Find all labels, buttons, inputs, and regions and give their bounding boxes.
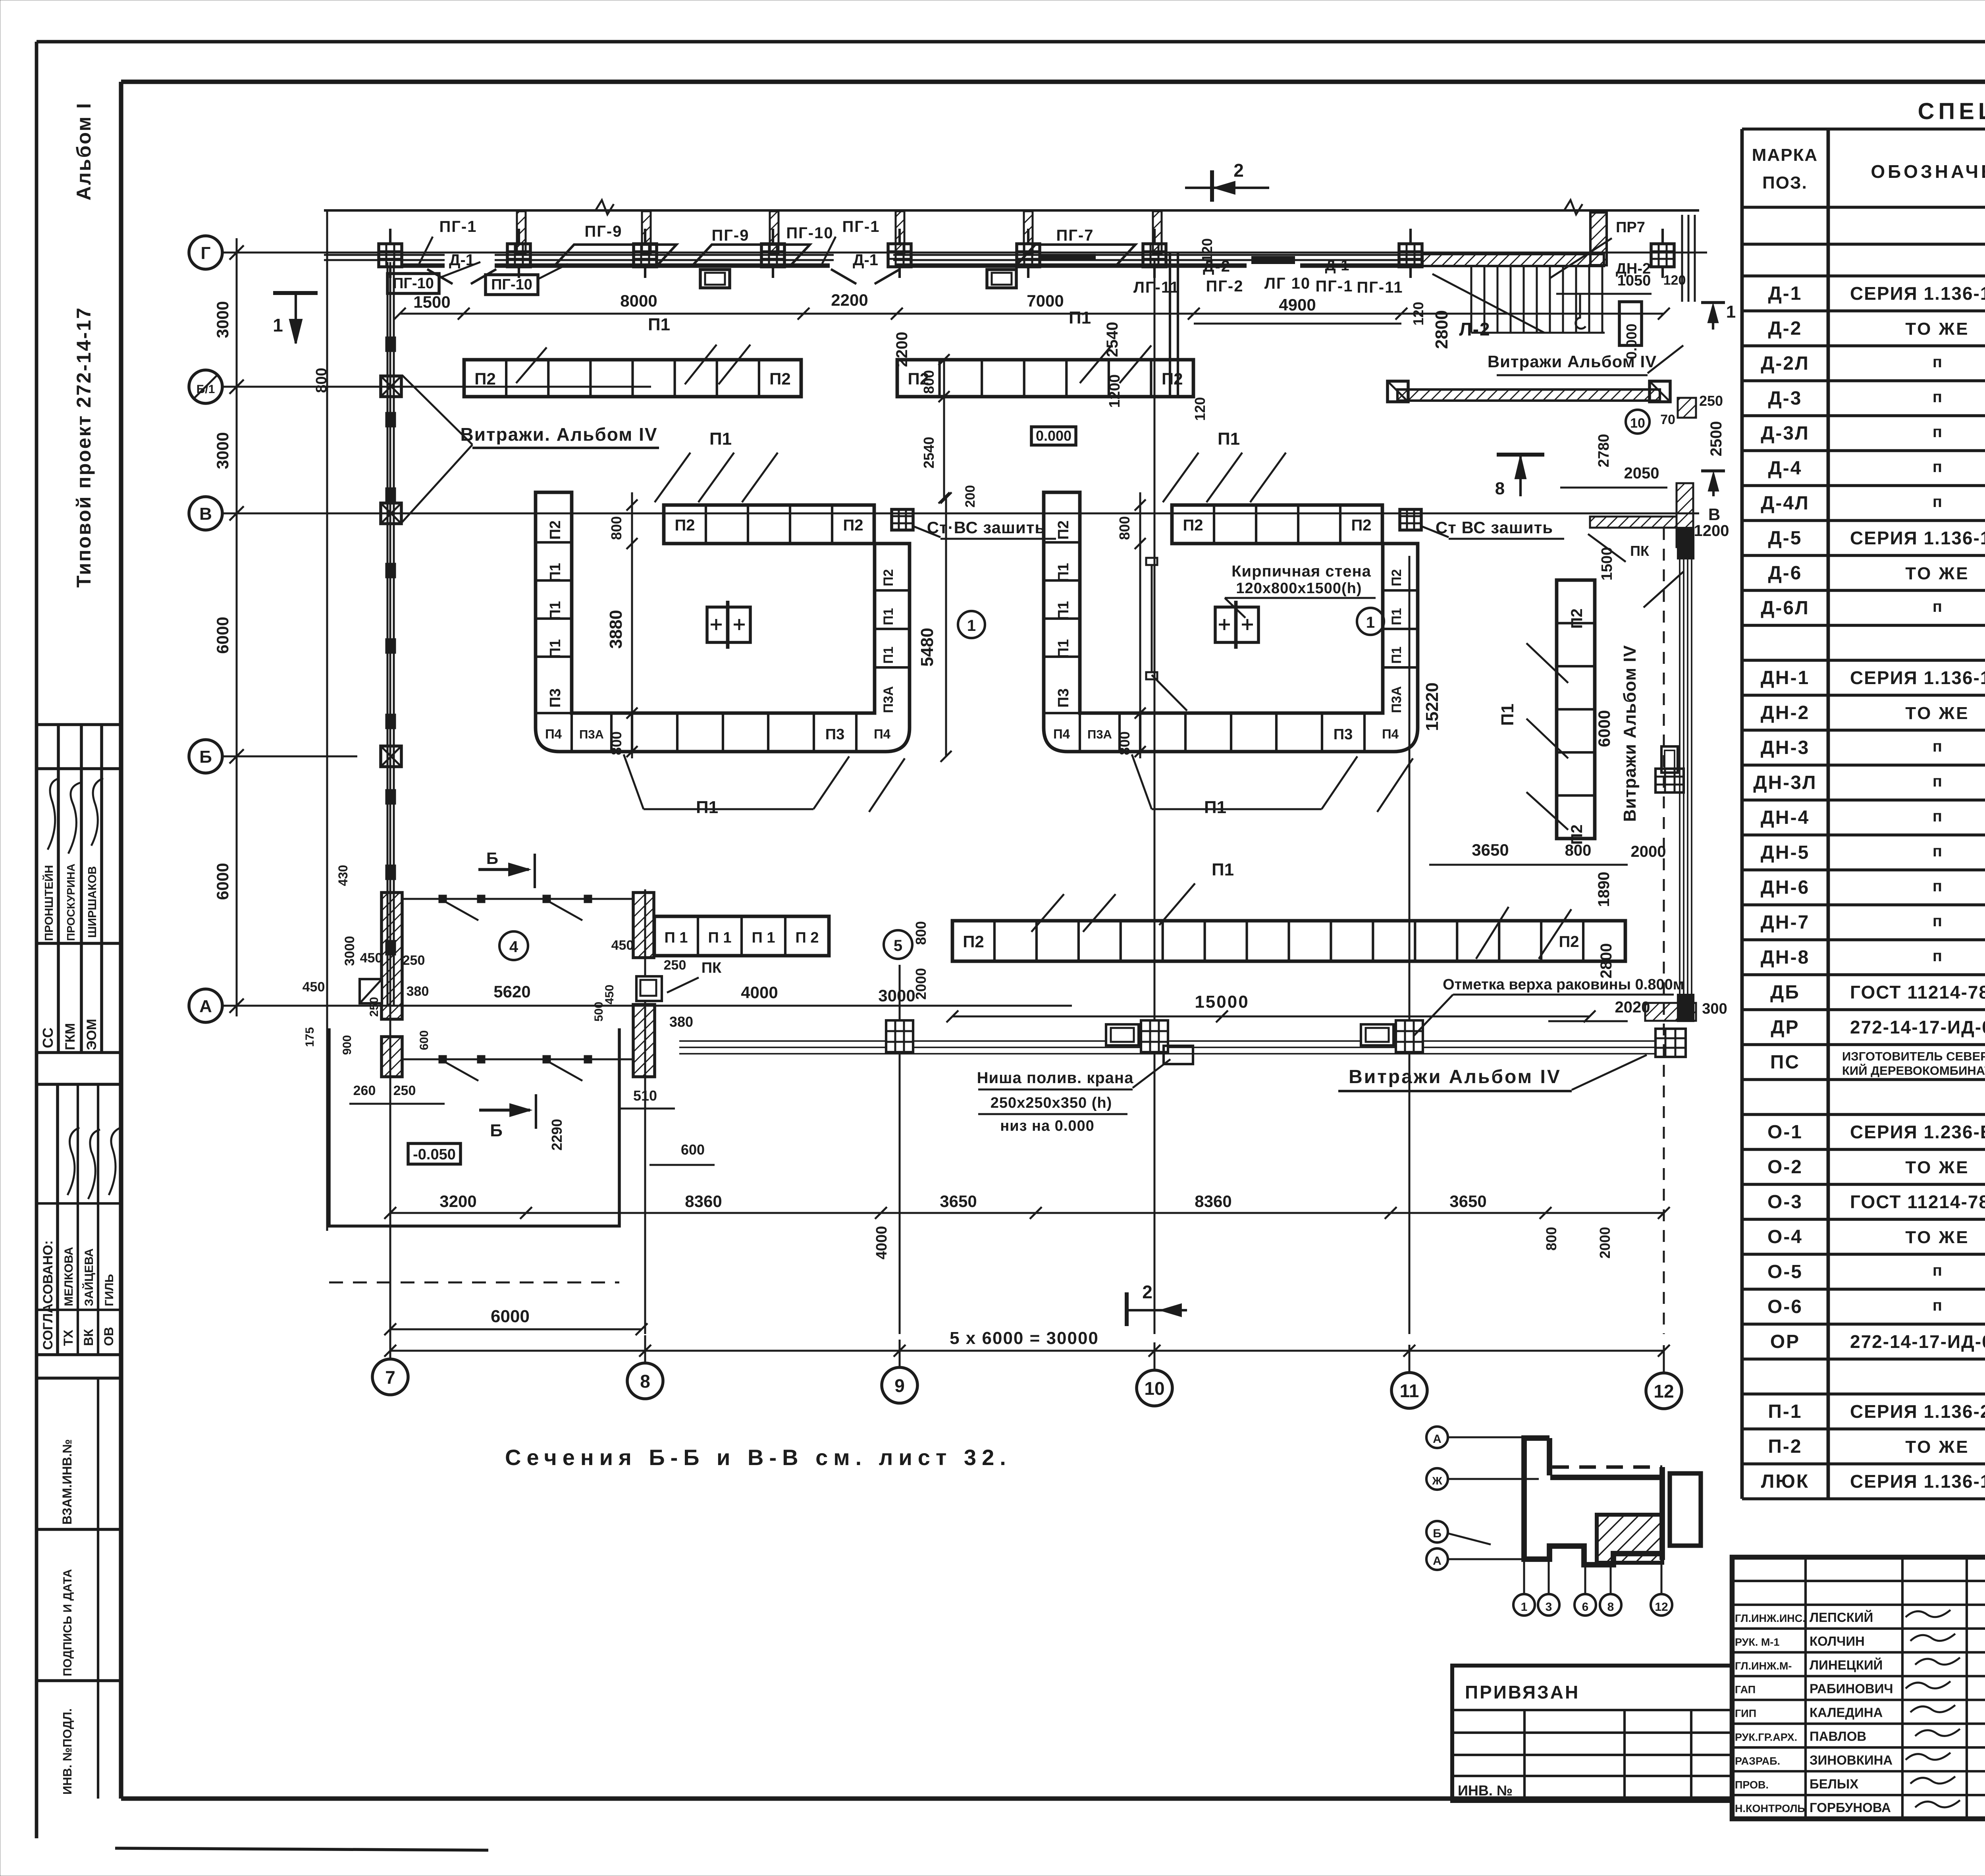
svg-text:Д-5: Д-5 xyxy=(1768,528,1802,549)
svg-text:ТО ЖЕ: ТО ЖЕ xyxy=(1905,564,1969,583)
svg-text:3000: 3000 xyxy=(878,986,915,1005)
svg-text:Отметка верха раковины 0.800м: Отметка верха раковины 0.800м xyxy=(1443,976,1684,993)
counter row 2 top-mid xyxy=(897,360,1193,397)
svg-text:п: п xyxy=(1933,1262,1942,1279)
dim line 800/3880/800 of U-counter 2 (right) xyxy=(1139,492,1141,758)
svg-text:КАЛЕДИНА: КАЛЕДИНА xyxy=(1810,1705,1883,1720)
left stamp table CC/GKM/EOM xyxy=(37,725,121,1053)
svg-text:3000: 3000 xyxy=(342,936,357,966)
spec table rows xyxy=(1742,129,1985,1499)
svg-text:СЕРИЯ 1.136-11.4.1: СЕРИЯ 1.136-11.4.1 xyxy=(1850,667,1985,688)
svg-text:260: 260 xyxy=(353,1083,376,1098)
window symbol 1 xyxy=(700,270,730,288)
svg-text:п: п xyxy=(1933,493,1942,511)
svg-text:Ж: Ж xyxy=(1432,1475,1442,1487)
vitrage window mid xyxy=(1661,746,1678,773)
svg-text:РУК. М-1: РУК. М-1 xyxy=(1735,1636,1779,1648)
svg-text:П1: П1 xyxy=(1218,429,1240,449)
svg-text:ГОРБУНОВА: ГОРБУНОВА xyxy=(1810,1800,1891,1815)
column on axis G x=1947 xyxy=(761,244,784,267)
mid dimension line xyxy=(390,1212,1664,1214)
svg-text:Д-2Л: Д-2Л xyxy=(1761,353,1810,374)
section marker 2 bottom xyxy=(1125,1292,1129,1326)
svg-text:2050: 2050 xyxy=(1624,465,1659,482)
column on axis G x=3553 xyxy=(1399,244,1422,267)
canopy hatched mullions xyxy=(517,211,526,253)
svg-text:ПГ-9: ПГ-9 xyxy=(585,223,622,240)
svg-text:Сечения Б-Б и В-В см. ли: Сечения Б-Б и В-В см. лист 32. xyxy=(505,1445,1012,1470)
svg-text:П1: П1 xyxy=(1389,608,1404,625)
key plan small scheme xyxy=(1426,1427,1701,1616)
column on bottom vitrage x=3550 xyxy=(1396,1020,1423,1052)
svg-text:О-1: О-1 xyxy=(1767,1122,1803,1143)
column on axis G x=2266 xyxy=(888,244,911,267)
label PG-1 leader a xyxy=(419,237,433,264)
svg-text:РУК.ГР.АРХ.: РУК.ГР.АРХ. xyxy=(1735,1731,1797,1743)
column on axis G x=983 xyxy=(379,244,402,267)
svg-text:Н.КОНТРОЛЬ: Н.КОНТРОЛЬ xyxy=(1735,1803,1805,1814)
svg-text:П4: П4 xyxy=(1382,727,1399,741)
svg-text:П2: П2 xyxy=(1055,521,1072,540)
svg-text:0.000: 0.000 xyxy=(1036,428,1072,444)
svg-text:О-6: О-6 xyxy=(1767,1296,1803,1317)
svg-text:9: 9 xyxy=(894,1375,905,1396)
grid column mid right xyxy=(1655,769,1684,792)
svg-text:ВК: ВК xyxy=(81,1329,96,1346)
column on axis G x=2590 xyxy=(1017,244,1040,267)
svg-text:СЕРИЯ 1.136-11.42: СЕРИЯ 1.136-11.42 xyxy=(1850,1471,1985,1492)
svg-text:ПГ-10: ПГ-10 xyxy=(786,224,833,242)
svg-text:Б: Б xyxy=(486,849,498,868)
top dimension line xyxy=(400,313,1664,315)
parallelogram symbol PG-9 b xyxy=(693,245,810,265)
center table of U-counter 2 (right) xyxy=(1215,607,1258,642)
svg-text:П 1: П 1 xyxy=(664,929,688,946)
svg-text:2: 2 xyxy=(1233,160,1244,181)
axis line А xyxy=(222,1005,1072,1007)
circled 1 right hall xyxy=(1357,608,1384,635)
left stamp: rotated sheet title xyxy=(73,102,95,588)
U-counter 1 (left) right col cells xyxy=(875,589,910,592)
axis circle Б xyxy=(189,740,222,773)
svg-text:5: 5 xyxy=(894,937,902,954)
axis circle 10 xyxy=(1137,1370,1172,1406)
svg-text:низ на 0.000: низ на 0.000 xyxy=(1000,1118,1095,1134)
svg-text:2500: 2500 xyxy=(1707,421,1725,457)
svg-text:6000: 6000 xyxy=(491,1307,530,1326)
svg-text:А: А xyxy=(199,997,212,1016)
svg-text:МАРКА: МАРКА xyxy=(1752,145,1818,165)
stair run diagonal xyxy=(1432,274,1544,333)
svg-text:П1: П1 xyxy=(1389,646,1404,663)
svg-text:175: 175 xyxy=(303,1027,316,1047)
svg-text:п: п xyxy=(1933,458,1942,476)
svg-text:СЕРИЯ 1.136-10: СЕРИЯ 1.136-10 xyxy=(1850,283,1985,304)
svg-text:СЕРИЯ 1.136-2: СЕРИЯ 1.136-2 xyxy=(1850,1401,1985,1422)
svg-text:п: п xyxy=(1933,843,1942,860)
boxed label PG-10 b xyxy=(486,275,538,295)
heavy door leaf mid xyxy=(1040,254,1096,261)
svg-text:4: 4 xyxy=(509,938,518,956)
svg-text:ДБ: ДБ xyxy=(1770,982,1800,1003)
svg-text:Б: Б xyxy=(490,1121,503,1140)
svg-text:П1: П1 xyxy=(1069,308,1091,328)
svg-text:п: п xyxy=(1933,1297,1942,1314)
U-counter 1 (left) top row xyxy=(664,505,874,544)
svg-text:ДР: ДР xyxy=(1771,1017,1799,1038)
section marker V xyxy=(1701,469,1725,472)
axis circle 9 xyxy=(882,1367,917,1403)
svg-text:П2: П2 xyxy=(1568,609,1586,629)
svg-text:ДН-7: ДН-7 xyxy=(1761,912,1810,933)
svg-text:Ниша полив. крана: Ниша полив. крана xyxy=(977,1069,1134,1087)
svg-text:Витражи Альбом IV: Витражи Альбом IV xyxy=(1620,645,1640,822)
counter row 1 top-left xyxy=(464,360,801,397)
label PG-1 leader b xyxy=(822,237,836,264)
stairwell top wall vertical hatched pier xyxy=(1590,212,1607,265)
svg-text:ПОЗ.: ПОЗ. xyxy=(1762,173,1808,193)
svg-text:800: 800 xyxy=(1543,1227,1559,1251)
svg-text:450: 450 xyxy=(360,951,383,966)
entrance outline xyxy=(329,1028,619,1226)
svg-text:ДН-2: ДН-2 xyxy=(1761,702,1810,723)
svg-text:250: 250 xyxy=(393,1083,416,1098)
svg-text:300: 300 xyxy=(1702,1001,1727,1017)
svg-text:П3: П3 xyxy=(1334,726,1353,743)
svg-text:П1: П1 xyxy=(1498,704,1517,726)
svg-text:800: 800 xyxy=(1565,842,1592,859)
svg-text:п: п xyxy=(1933,877,1942,895)
svg-text:ОВ: ОВ xyxy=(102,1327,116,1346)
svg-text:6000: 6000 xyxy=(213,863,232,900)
st vs column 2 xyxy=(1400,509,1421,530)
svg-text:ЗИНОВКИНА: ЗИНОВКИНА xyxy=(1810,1753,1892,1767)
svg-text:8000: 8000 xyxy=(620,291,657,310)
svg-text:800: 800 xyxy=(1116,731,1133,755)
dim line 6000 axes 7-8 xyxy=(390,1328,642,1330)
U-counter 2 (right) left col cells xyxy=(1044,541,1080,544)
svg-text:ДН-3: ДН-3 xyxy=(1761,737,1810,758)
svg-text:А: А xyxy=(1433,1554,1442,1568)
svg-text:1050: 1050 xyxy=(1617,272,1651,289)
section marker 1 right xyxy=(1701,301,1725,304)
bottom short counter row xyxy=(654,916,829,956)
svg-text:3000: 3000 xyxy=(213,301,232,338)
svg-text:250х250х350 (h): 250х250х350 (h) xyxy=(991,1095,1112,1111)
dim 4900 line xyxy=(1194,323,1401,325)
svg-text:ЛЕПСКИЙ: ЛЕПСКИЙ xyxy=(1810,1610,1873,1625)
bottom long counter row xyxy=(952,921,1625,961)
section marker 1 top-left xyxy=(273,291,318,295)
svg-text:8: 8 xyxy=(1495,479,1505,498)
svg-text:250: 250 xyxy=(664,958,686,973)
svg-text:ПГ-10: ПГ-10 xyxy=(393,275,434,292)
circled 5 xyxy=(884,930,912,959)
stairwell bottom hatched wall xyxy=(1397,389,1660,401)
axis circle 12 xyxy=(1646,1373,1682,1409)
svg-text:Витражи Альбом IV: Витражи Альбом IV xyxy=(1488,352,1657,371)
svg-text:4000: 4000 xyxy=(873,1226,890,1260)
window on pier A xyxy=(360,979,382,1003)
wall on axis 10 xyxy=(1169,253,1171,396)
svg-text:1890: 1890 xyxy=(1595,872,1613,907)
svg-text:О-2: О-2 xyxy=(1767,1157,1803,1178)
svg-text:600: 600 xyxy=(418,1030,431,1050)
svg-text:П2: П2 xyxy=(547,521,564,540)
svg-text:П1: П1 xyxy=(1204,798,1226,817)
svg-text:ДН-1: ДН-1 xyxy=(1761,667,1810,688)
lower lobby hatched wall vertical xyxy=(1677,483,1693,547)
svg-text:ПС: ПС xyxy=(1770,1052,1800,1073)
svg-text:800: 800 xyxy=(608,516,624,540)
svg-text:7000: 7000 xyxy=(1027,291,1064,310)
svg-text:272-14-17-ИД-04.00.ДО: 272-14-17-ИД-04.00.ДО xyxy=(1850,1331,1985,1352)
svg-text:ИНВ. №: ИНВ. № xyxy=(1458,1782,1513,1799)
svg-text:КИЙ ДЕРЕВОКОМБИНАТ: КИЙ ДЕРЕВОКОМБИНАТ xyxy=(1842,1063,1985,1078)
spec table grid xyxy=(1752,145,1985,193)
stair treads xyxy=(1470,265,1472,333)
column on axis G x=2908 xyxy=(1143,244,1166,267)
svg-text:2000: 2000 xyxy=(1631,843,1666,860)
svg-text:Типовой проект 272-14-17: Типовой проект 272-14-17 xyxy=(73,307,95,588)
axis circle 8 xyxy=(627,1363,663,1399)
svg-text:П3: П3 xyxy=(825,726,844,743)
window on bottom vitrage x=3550 xyxy=(1361,1024,1393,1045)
left dimension line xyxy=(236,238,238,1016)
svg-text:250: 250 xyxy=(403,953,425,968)
stair right vitrage xyxy=(1681,215,1683,302)
boxed 0.000 stair xyxy=(1619,302,1642,345)
svg-text:П 2: П 2 xyxy=(795,929,819,946)
column on axis G x=1307 xyxy=(507,244,530,267)
svg-text:Кирпичная стена: Кирпичная стена xyxy=(1231,563,1371,580)
svg-text:Д-3Л: Д-3Л xyxy=(1761,423,1810,444)
svg-text:ПГ-1: ПГ-1 xyxy=(439,218,477,235)
svg-text:8: 8 xyxy=(640,1371,650,1392)
svg-text:450: 450 xyxy=(303,979,325,995)
column on axis G x=4188 xyxy=(1651,244,1674,267)
svg-text:ПГ-2: ПГ-2 xyxy=(1206,278,1244,295)
svg-text:4900: 4900 xyxy=(1279,295,1316,314)
svg-text:ДН-4: ДН-4 xyxy=(1761,807,1810,828)
vitrage block bottom xyxy=(1678,995,1693,1021)
svg-text:ГИЛЬ: ГИЛЬ xyxy=(103,1274,116,1306)
dashed lower boundary xyxy=(329,1282,619,1284)
svg-text:КОЛЧИН: КОЛЧИН xyxy=(1810,1634,1865,1648)
svg-text:СОГЛАСОВАНО:: СОГЛАСОВАНО: xyxy=(40,1240,56,1350)
svg-text:П1: П1 xyxy=(547,601,564,620)
svg-text:2800: 2800 xyxy=(1598,943,1615,979)
svg-text:ГОСТ 11214-78: ГОСТ 11214-78 xyxy=(1850,982,1985,1003)
dim line 5x6000=30000 xyxy=(390,1350,1664,1352)
svg-text:1: 1 xyxy=(1726,302,1736,322)
svg-text:П1: П1 xyxy=(547,563,564,582)
svg-text:П2: П2 xyxy=(881,569,896,586)
canopy break mark right xyxy=(1564,200,1582,214)
svg-text:6000: 6000 xyxy=(1595,710,1613,747)
svg-text:ПР7: ПР7 xyxy=(1616,219,1645,236)
boxed 0.000 hall xyxy=(1031,427,1076,445)
svg-text:5480: 5480 xyxy=(917,628,937,667)
svg-text:ЛИНЕЦКИЙ: ЛИНЕЦКИЙ xyxy=(1810,1657,1883,1672)
svg-text:ОБОЗНАЧЕНИЕ: ОБОЗНАЧЕНИЕ xyxy=(1871,161,1985,182)
svg-text:П1: П1 xyxy=(1055,563,1072,582)
svg-text:СС: СС xyxy=(40,1028,56,1048)
svg-text:272-14-17-ИД-0. 00ДО: 272-14-17-ИД-0. 00ДО xyxy=(1850,1017,1985,1037)
svg-text:П3А: П3А xyxy=(881,686,896,713)
svg-text:ТО ЖЕ: ТО ЖЕ xyxy=(1905,704,1969,723)
svg-text:ГОСТ 11214-78: ГОСТ 11214-78 xyxy=(1850,1192,1985,1212)
axis line Б xyxy=(222,756,357,758)
svg-text:П2: П2 xyxy=(1389,569,1404,586)
svg-text:СПЕЦИФИКАЦИЯ ИЗДЕЛИЙ: СПЕЦИФИКАЦИЯ ИЗДЕЛИЙ xyxy=(1918,98,1985,124)
svg-text:3650: 3650 xyxy=(1472,841,1509,859)
svg-text:2020: 2020 xyxy=(1615,999,1650,1016)
svg-text:ДН-6: ДН-6 xyxy=(1761,877,1810,898)
svg-text:600: 600 xyxy=(681,1141,705,1158)
svg-text:380: 380 xyxy=(669,1014,693,1030)
dim line 5480 xyxy=(945,498,947,756)
svg-text:450: 450 xyxy=(603,985,616,1005)
boxed label PG-10 a xyxy=(387,274,439,293)
privyazan table xyxy=(1452,1666,1732,1801)
svg-text:15000: 15000 xyxy=(1195,992,1249,1012)
svg-text:2000: 2000 xyxy=(1597,1227,1613,1259)
svg-text:1200: 1200 xyxy=(1694,522,1729,540)
svg-text:П2: П2 xyxy=(1559,933,1579,951)
svg-text:800: 800 xyxy=(608,731,624,755)
dim 15000 xyxy=(952,1016,1590,1018)
svg-text:п: п xyxy=(1933,947,1942,965)
svg-text:П1: П1 xyxy=(547,639,564,658)
svg-text:Д-1: Д-1 xyxy=(1768,283,1802,304)
svg-text:3200: 3200 xyxy=(439,1192,476,1211)
svg-text:ПРОНШТЕЙН: ПРОНШТЕЙН xyxy=(42,865,56,941)
circled 4 xyxy=(499,931,528,960)
svg-text:ПГ-1: ПГ-1 xyxy=(842,218,880,235)
svg-text:Б: Б xyxy=(199,747,212,767)
svg-text:П3А: П3А xyxy=(1389,686,1404,713)
axis line Г xyxy=(222,252,1707,254)
corner hatched wall xyxy=(1678,398,1696,418)
U-counter 2 (right) bottom row cells xyxy=(1079,713,1081,752)
section marker B bottom xyxy=(479,1109,530,1112)
svg-text:1: 1 xyxy=(1521,1600,1528,1614)
svg-text:ПАВЛОВ: ПАВЛОВ xyxy=(1810,1729,1866,1743)
axis line 10 vertical xyxy=(1154,258,1156,1334)
svg-text:ПГ-11: ПГ-11 xyxy=(1357,279,1403,296)
svg-text:П2: П2 xyxy=(474,370,496,388)
svg-text:800: 800 xyxy=(313,368,330,393)
small wall studs axis10 xyxy=(1146,558,1157,565)
svg-text:П4: П4 xyxy=(1053,727,1070,741)
svg-text:5 х 6000 = 30000: 5 х 6000 = 30000 xyxy=(950,1328,1099,1348)
svg-text:П2: П2 xyxy=(963,932,984,951)
section marker 2 top xyxy=(1210,170,1214,202)
boxed label -0.050 xyxy=(408,1143,461,1164)
svg-text:П1: П1 xyxy=(648,315,670,334)
svg-text:ПРОСКУРИНА: ПРОСКУРИНА xyxy=(65,864,77,941)
svg-text:8360: 8360 xyxy=(685,1192,722,1211)
svg-text:ИЗГОТОВИТЕЛЬ СЕВЕРОДВИНС: ИЗГОТОВИТЕЛЬ СЕВЕРОДВИНС xyxy=(1842,1049,1985,1063)
svg-text:П2: П2 xyxy=(1183,517,1203,534)
svg-text:250: 250 xyxy=(368,997,381,1017)
svg-text:П2: П2 xyxy=(843,517,863,534)
svg-text:ТХ: ТХ xyxy=(61,1329,75,1346)
svg-text:Д-4: Д-4 xyxy=(1768,458,1802,479)
svg-text:ПРОВ.: ПРОВ. xyxy=(1735,1779,1769,1791)
vitrage mullion blocks left xyxy=(386,337,395,351)
svg-text:ПГ-7: ПГ-7 xyxy=(1056,227,1094,244)
stair door heavy mark xyxy=(1251,256,1295,264)
axis circle 7 xyxy=(372,1359,408,1395)
bottom grid column right xyxy=(1655,1029,1686,1057)
canopy break mark left xyxy=(595,200,614,214)
column on bottom vitrage x=2908 xyxy=(1141,1020,1168,1052)
svg-text:ПК: ПК xyxy=(1630,543,1650,559)
svg-text:П-1: П-1 xyxy=(1768,1401,1802,1422)
svg-text:ШИРШАКОВ: ШИРШАКОВ xyxy=(86,866,99,938)
svg-text:ПГ-1: ПГ-1 xyxy=(1316,278,1353,295)
entrance pier B2 xyxy=(633,1005,655,1077)
svg-text:п: п xyxy=(1933,808,1942,825)
svg-text:ПК: ПК xyxy=(701,960,722,976)
U-counter 2 (right) outline xyxy=(1044,492,1418,752)
niche symbol xyxy=(1164,1046,1193,1064)
svg-text:ГКМ: ГКМ xyxy=(63,1023,78,1050)
svg-text:2: 2 xyxy=(1142,1282,1152,1302)
svg-text:800: 800 xyxy=(913,921,929,945)
svg-text:120: 120 xyxy=(1199,238,1215,262)
circled 10 xyxy=(1626,410,1650,434)
svg-text:2200: 2200 xyxy=(831,291,868,309)
U-counter 2 (right) top row xyxy=(1172,505,1382,544)
svg-text:П2: П2 xyxy=(1162,370,1183,388)
svg-text:2290: 2290 xyxy=(549,1119,565,1151)
svg-text:СЕРИЯ 1.236-Б ВЫП.1: СЕРИЯ 1.236-Б ВЫП.1 xyxy=(1850,1122,1985,1142)
svg-text:Д-3: Д-3 xyxy=(1768,388,1802,409)
U-counter 1 (left) left col cells xyxy=(536,541,572,544)
title block frame xyxy=(1732,1557,1985,1819)
svg-text:ПГ-9: ПГ-9 xyxy=(712,227,750,244)
stairwell bottom wall columns xyxy=(1388,381,1408,402)
svg-text:О-4: О-4 xyxy=(1767,1226,1803,1247)
svg-text:п: п xyxy=(1933,598,1942,615)
svg-text:1: 1 xyxy=(1366,614,1375,631)
svg-text:п: п xyxy=(1933,353,1942,371)
stairwell top hatched wall xyxy=(1422,254,1604,266)
axis circle Г xyxy=(189,236,222,269)
column axis7/V xyxy=(381,503,401,524)
svg-text:Д-6: Д-6 xyxy=(1768,563,1802,584)
dim line 800/3880/800 of U-counter 1 (left) xyxy=(631,492,633,758)
svg-text:П2: П2 xyxy=(769,370,791,388)
svg-text:3000: 3000 xyxy=(213,432,232,469)
axis line В xyxy=(222,513,1699,515)
right vitrage wall xyxy=(1679,558,1681,995)
entrance pier B1 xyxy=(633,893,654,958)
svg-text:О-3: О-3 xyxy=(1767,1192,1803,1213)
svg-text:П1: П1 xyxy=(1055,601,1072,620)
window on bottom vitrage x=2908 xyxy=(1106,1024,1139,1045)
svg-text:ДН-5: ДН-5 xyxy=(1761,842,1810,863)
svg-text:10: 10 xyxy=(1630,416,1645,431)
svg-text:П 1: П 1 xyxy=(752,929,775,946)
svg-text:МЕЛКОВА: МЕЛКОВА xyxy=(62,1247,75,1306)
parallelogram symbol PG-9 a xyxy=(555,245,676,265)
svg-text:12: 12 xyxy=(1655,1600,1668,1614)
svg-text:70: 70 xyxy=(1660,412,1675,427)
